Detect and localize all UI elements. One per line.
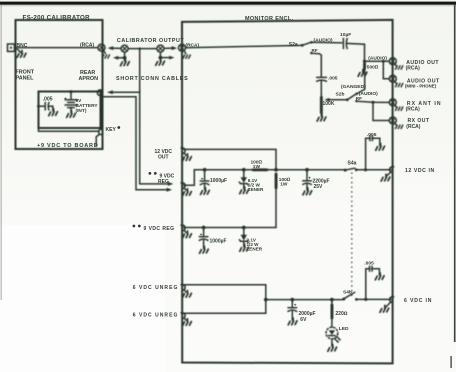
ground below battery [67, 111, 76, 118]
potentiometer 100K body [320, 96, 323, 114]
svg-text:(INT): (INT) [76, 108, 87, 114]
capacitor 10uF [343, 39, 347, 49]
svg-text:1000µF: 1000µF [210, 239, 227, 245]
resistor 500 ohm [363, 62, 366, 69]
ground at .005 12V bypass [376, 143, 385, 150]
jack on inner box top right (board feed) [97, 90, 102, 96]
wire 12VDC IN feed [356, 169, 390, 171]
svg-text:1000µF: 1000µF [210, 178, 227, 184]
node audio out [363, 60, 366, 63]
resistor R3 220 ohm [331, 300, 334, 328]
right lower page edge mark [450, 356, 451, 368]
12 VDC IN jack [390, 167, 395, 173]
ground at monitor RCA jack [183, 51, 190, 59]
zener diode D1 9.1V [239, 170, 248, 189]
AUDIO OUT RCA connector [389, 58, 396, 65]
wire S2a RF contact down [311, 53, 321, 77]
svg-text:2000µF: 2000µF [299, 311, 316, 317]
wire 10uF to audio drop [347, 43, 365, 61]
svg-text:REG: REG [158, 179, 169, 185]
svg-text:1W: 1W [280, 182, 288, 188]
RX OUT connector [389, 117, 396, 124]
arrow from plug A to cal RCA [108, 46, 121, 50]
svg-text:S4b: S4b [343, 289, 352, 295]
ground at 6VDC UNREG jack 2 [183, 318, 192, 325]
svg-text:+: + [200, 233, 203, 238]
plug A shield stub, node, arrow, ground [113, 52, 129, 65]
svg-text:(RCA): (RCA) [406, 107, 420, 113]
svg-text:PANEL: PANEL [16, 75, 35, 81]
svg-text:6V: 6V [300, 317, 307, 323]
pot ground [317, 114, 326, 121]
wire S4b to 6VDC IN jack [356, 298, 390, 300]
switch S2b [346, 93, 358, 103]
node RX line [371, 101, 374, 104]
ground at 9VDC REG jack 1 [183, 188, 192, 195]
ground at RX OUT [395, 124, 403, 129]
svg-text:+: + [64, 97, 67, 102]
ground at AUDIO OUT mini-phone [395, 82, 403, 87]
wire plug A to plug B [128, 48, 156, 50]
capacitor .005 (calibrator) [39, 103, 53, 110]
svg-text:9 VDC REG: 9 VDC REG [144, 226, 175, 232]
wire drop to AUDIO OUT mini-phone [383, 61, 389, 79]
resistor R1 100 ohm 1W (horizontal) [252, 168, 268, 171]
svg-text:+: + [308, 177, 311, 182]
left page edge line [1, 5, 2, 300]
wire S2b RF contact to RX line [357, 101, 390, 102]
svg-text:100K: 100K [323, 101, 335, 107]
monitor RCA input jack [179, 44, 186, 51]
node 6V tap [264, 298, 268, 302]
svg-text:25V: 25V [314, 184, 324, 190]
switch S4b [342, 292, 358, 300]
battery compartment inner box [39, 92, 101, 129]
wire 9V/12V rail 1 [194, 169, 345, 171]
svg-text:+: + [294, 304, 297, 309]
capacitor .005 (6V input bypass) [366, 266, 380, 299]
12 VDC OUT jack [181, 148, 186, 154]
node 2000uF [290, 298, 294, 302]
KEY jack J3 [99, 129, 104, 135]
battery B1 9V [65, 90, 77, 112]
ground at cal RCA jack [102, 51, 109, 59]
svg-text:ZENER: ZENER [248, 187, 264, 192]
ground at 6VDC UNREG jack 1 [183, 290, 192, 297]
svg-text:.005: .005 [43, 96, 53, 102]
svg-text:CALIBRATOR OUTPUT: CALIBRATOR OUTPUT [117, 38, 184, 44]
ground at D2 [240, 244, 249, 251]
LED DS1 [326, 327, 340, 343]
elbow from 9VDC REG jack 1 [184, 170, 194, 186]
9 VDC REG jack 2 [181, 225, 186, 231]
svg-text:RF: RF [312, 48, 318, 53]
ground at .005 6V bypass [375, 273, 384, 280]
svg-text:FS-200 CALIBRATOR: FS-200 CALIBRATOR [23, 14, 91, 21]
ground at 2200uF [303, 188, 312, 195]
svg-text:6 VDC UNREG: 6 VDC UNREG [133, 313, 179, 319]
svg-text:OUT: OUT [158, 154, 169, 160]
svg-text:LED: LED [339, 326, 349, 332]
ground at LED [328, 344, 337, 351]
svg-text:MONITOR ENCL.: MONITOR ENCL. [245, 16, 294, 22]
node .005 on 12V feed [364, 168, 367, 171]
calibrator output plug B [157, 45, 164, 52]
BNC connector J1 [8, 44, 15, 51]
ground at AUDIO OUT RCA [395, 64, 403, 69]
wire 6V feed to S4b [266, 299, 344, 301]
wire 6V unreg top [184, 285, 266, 314]
node on inner box left edge [37, 105, 40, 108]
ground at 6 VDC IN jack [380, 302, 391, 312]
svg-text:RF: RF [356, 96, 362, 101]
capacitor 1000uF C2 [199, 228, 207, 249]
svg-text:6 VDC IN: 6 VDC IN [404, 298, 432, 304]
svg-text:ZENER: ZENER [247, 246, 263, 251]
RX ANT IN connector [389, 99, 396, 106]
wire LED to ground [331, 339, 333, 346]
wire R2 to rail 2 [184, 189, 276, 228]
svg-text:(RCA): (RCA) [80, 43, 94, 49]
svg-text:10µF: 10µF [340, 32, 351, 38]
capacitor 1000uF C1 [200, 170, 208, 190]
node zener D1 [242, 168, 246, 172]
svg-text:.005: .005 [328, 76, 338, 82]
switch S4a [344, 168, 358, 171]
ground at 500 ohm [358, 69, 367, 76]
wire inner box to KEY jack [39, 128, 98, 131]
node to mini-phone drop [382, 60, 385, 63]
calibrator output plug A [121, 45, 128, 52]
svg-text:S2a: S2a [289, 42, 298, 48]
9 VDC REG jack 1 [181, 183, 186, 189]
6 VDC UNREG jack 1 [181, 285, 186, 291]
svg-text:(AUDIO): (AUDIO) [314, 37, 333, 43]
wire BNC to RCA [15, 47, 99, 49]
AUDIO OUT mini-phone connector [389, 75, 396, 82]
ground at 9VDC REG jack 2 [183, 231, 192, 238]
wire .005 to pot [320, 81, 322, 96]
wire 12V rail [184, 149, 276, 169]
calibrator output RCA jack J2 [98, 44, 105, 51]
svg-text:S2b: S2b [336, 92, 345, 98]
switch S2a [301, 41, 313, 54]
wire S2a AUDIO contact to 10uF [311, 41, 341, 44]
node 12V drop junction [274, 168, 278, 172]
right page edge line [454, 4, 456, 342]
ground at C1 [201, 188, 210, 195]
capacitor .005 (12V input bypass) [366, 136, 380, 170]
svg-text:(RCA): (RCA) [186, 42, 200, 48]
plug B shield stub, node, arrow, ground [156, 52, 175, 65]
capacitor .005 (RF line) [317, 77, 327, 81]
capacitor 2000uF 6V [288, 300, 296, 320]
label ** 9 VDC REG 2 [133, 225, 136, 228]
svg-text:S4a: S4a [348, 161, 357, 167]
svg-text:12 VDC IN: 12 VDC IN [405, 168, 435, 174]
arrow from plug B to monitor RCA [164, 46, 177, 50]
node 1000uF C1 [203, 168, 207, 172]
monitor enclosure box [182, 20, 393, 364]
svg-text:APRON: APRON [79, 76, 99, 82]
svg-text:(MINI - PHONE): (MINI - PHONE) [405, 84, 437, 89]
wire monitor RCA to S2a [186, 45, 302, 47]
svg-text:KEY: KEY [106, 127, 117, 133]
svg-text:6 VDC UNREG: 6 VDC UNREG [133, 285, 179, 291]
node zener D2 [242, 226, 246, 230]
ground at C2 [200, 246, 209, 253]
ground at .005 cal cap [49, 106, 58, 116]
svg-text:+9 VDC TO BOARD: +9 VDC TO BOARD [37, 143, 98, 149]
ground at D1 [240, 187, 249, 194]
patch cable: 9VDC from monitor to calibrator KEY [104, 47, 173, 191]
wire node to AUDIO OUT RCA [365, 60, 390, 62]
6 VDC UNREG jack 2 [181, 313, 186, 319]
svg-text:BNC: BNC [17, 43, 28, 49]
svg-text:.005: .005 [367, 132, 377, 138]
node .005 on 6V feed [364, 298, 367, 301]
node 220 ohm [330, 298, 334, 302]
svg-text:500Ω: 500Ω [367, 64, 379, 70]
ground at RX ANT IN [395, 105, 403, 110]
svg-text:(AUDIO): (AUDIO) [368, 56, 387, 62]
node 2200uF [305, 168, 309, 172]
6 VDC IN jack [390, 297, 395, 303]
KEY jack lead to board [96, 135, 99, 146]
svg-text:220Ω: 220Ω [335, 311, 347, 317]
resistor R2 100 ohm 1W (vertical) [275, 173, 278, 190]
ground at 12 VDC IN jack [381, 172, 390, 181]
zener diode D2 9.1V [239, 228, 248, 247]
node 1000uF C2 [202, 226, 206, 230]
label ** 9 VDC REG 1 [149, 172, 152, 175]
ground at BNC [17, 49, 26, 57]
svg-text:.005: .005 [364, 261, 374, 267]
top page border bar [0, 2, 456, 5]
capacitor 2200uF 25V [303, 170, 311, 190]
svg-text:(GANGED): (GANGED) [341, 84, 366, 90]
wire RX drop to RX OUT [373, 102, 389, 120]
ground at 2000uF [288, 318, 297, 325]
calibrator enclosure box [16, 20, 103, 149]
ganged switch dashed link S4a-S4b [351, 173, 353, 297]
svg-text:SHORT CONN CABLES: SHORT CONN CABLES [116, 76, 188, 82]
svg-text:+: + [201, 177, 204, 182]
wire S2b AUDIO contact riser [357, 70, 365, 94]
svg-text:(RCA): (RCA) [406, 124, 420, 130]
ground at 12 VDC OUT jack [183, 154, 192, 161]
pot wiper arrow from S2b pole [324, 98, 347, 102]
svg-text:1W: 1W [253, 164, 261, 170]
svg-text:(RCA): (RCA) [406, 65, 420, 71]
